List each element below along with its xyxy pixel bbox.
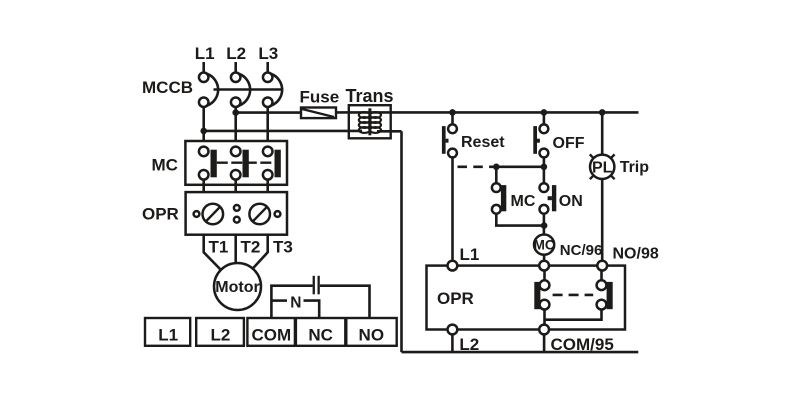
- MC label: [152, 155, 178, 174]
- pushbutton ON: [540, 183, 557, 214]
- dashed link reset to branch: [453, 166, 497, 169]
- OPR heater 2: [249, 204, 270, 225]
- Fuse label: [300, 87, 340, 106]
- svg-text:N: N: [290, 294, 301, 311]
- svg-text:L2: L2: [210, 326, 230, 345]
- wire L2 stub: [234, 62, 237, 72]
- relay contact NO: [597, 280, 613, 309]
- pushbutton Reset: [442, 124, 457, 157]
- svg-text:L2: L2: [226, 44, 246, 63]
- fuse F1: [301, 108, 336, 119]
- svg-text:OPR: OPR: [142, 204, 179, 223]
- contactor MC pole 2 contact: [231, 147, 249, 180]
- breaker MCCB pole 2: [231, 73, 250, 107]
- contactor MC pole 3 contact: [263, 147, 281, 180]
- svg-text:NO/98: NO/98: [613, 246, 659, 263]
- terminal NC96 of OPR: [539, 261, 549, 271]
- L1 node label: [460, 245, 480, 264]
- junction L1 trans tap: [200, 128, 207, 135]
- relay contact NC: [534, 280, 549, 309]
- node L2 label: [226, 44, 246, 63]
- terminal NO label: [359, 326, 385, 345]
- svg-text:Reset: Reset: [461, 134, 505, 151]
- svg-text:OFF: OFF: [553, 135, 585, 152]
- svg-text:MCCB: MCCB: [142, 78, 193, 97]
- svg-text:MC: MC: [511, 193, 536, 210]
- Trip label: [620, 159, 650, 176]
- OPR label: [142, 204, 179, 223]
- MCCB linkage bar: [214, 88, 284, 91]
- wire branch to off column: [496, 166, 544, 169]
- svg-text:T3: T3: [273, 238, 293, 257]
- NC/96 label: [560, 242, 603, 259]
- terminal COM95 of OPR: [539, 325, 549, 335]
- svg-text:PL: PL: [592, 160, 613, 177]
- wire trans to right rail: [377, 130, 402, 133]
- OPR center dots: [234, 205, 240, 223]
- svg-text:L1: L1: [195, 44, 215, 63]
- contactor MC box: [185, 141, 287, 185]
- wire COM95 terminal to rail: [543, 334, 546, 352]
- wire ON down: [543, 214, 546, 235]
- wire NC96 to contact: [543, 271, 546, 281]
- wire contact NC to COM95: [543, 310, 546, 325]
- wire MC to OPR pole1: [202, 180, 205, 193]
- T3 label: [273, 238, 293, 257]
- contactor MC pole 1 contact: [199, 147, 217, 180]
- wire pole2 to MC: [234, 107, 237, 147]
- wire coil to NC96: [543, 255, 546, 261]
- terminal block TB1: [145, 318, 397, 346]
- transformer T1 box: [349, 105, 391, 138]
- svg-text:MC: MC: [534, 238, 555, 253]
- wire L3 stub: [266, 62, 269, 72]
- svg-text:Motor: Motor: [215, 279, 259, 296]
- node N label: [290, 294, 301, 311]
- MCCB label: [142, 78, 193, 97]
- wire COM riser: [271, 286, 312, 318]
- wire OPR T1 down: [204, 235, 221, 270]
- OPR terminal left: [194, 211, 200, 217]
- svg-text:T2: T2: [241, 238, 261, 257]
- Reset label: [461, 134, 505, 151]
- T2 label: [241, 238, 261, 257]
- terminal L2 label: [210, 326, 230, 345]
- L2 node label: [459, 335, 479, 354]
- wire pole3 to MC: [266, 107, 269, 147]
- terminal L2 of OPR: [448, 325, 458, 335]
- wire MC contact elbow: [496, 214, 544, 226]
- ON label: [559, 193, 583, 210]
- wire N branch right: [304, 301, 320, 318]
- terminal NO98 of OPR: [597, 261, 607, 271]
- node L3 label: [258, 44, 278, 63]
- wire NO98 to contact: [600, 271, 603, 281]
- wire rail to off: [543, 112, 546, 124]
- terminal L1 label: [158, 326, 178, 345]
- motor M: [214, 263, 261, 310]
- COM/95 label: [551, 335, 614, 354]
- svg-text:T1: T1: [209, 238, 229, 257]
- wire OPR T3 down: [252, 235, 268, 270]
- svg-text:Fuse: Fuse: [300, 87, 340, 106]
- wire L1 to trans: [204, 130, 362, 133]
- relay link dashes: [553, 294, 594, 297]
- junction top rail pl: [599, 109, 606, 116]
- wire rail to reset: [451, 112, 454, 124]
- svg-text:Trip: Trip: [620, 159, 650, 176]
- wire MC to OPR pole2: [234, 180, 237, 193]
- capacitor C1: [313, 276, 320, 295]
- terminal NC label: [308, 326, 333, 345]
- T1 label: [209, 238, 229, 257]
- wire rail to PL: [601, 112, 604, 154]
- relay OPR box: [427, 266, 626, 330]
- terminal L1 of OPR: [448, 261, 458, 271]
- wire N branch left: [271, 299, 287, 302]
- NO/98 label: [613, 246, 659, 263]
- pilot lamp PL: [590, 154, 615, 179]
- junction coil node: [541, 222, 548, 229]
- wire reset to L1 terminal: [451, 157, 454, 261]
- wire L1 stub: [202, 62, 205, 72]
- wire PL to NO98: [601, 179, 604, 261]
- MC mechanical link dashes: [217, 161, 275, 163]
- junction top rail reset: [449, 109, 456, 116]
- svg-text:L1: L1: [158, 326, 178, 345]
- OPR heater 1: [203, 204, 224, 225]
- wire top rail: [336, 111, 639, 114]
- svg-text:OPR: OPR: [437, 289, 474, 308]
- svg-text:MC: MC: [152, 155, 178, 174]
- OPR terminal right: [275, 211, 281, 217]
- overload relay OPR box: [186, 192, 287, 235]
- breaker MCCB pole 1: [199, 73, 218, 107]
- coil MC: [534, 235, 555, 255]
- wire capacitor to NO riser: [320, 286, 370, 318]
- OFF label: [553, 135, 585, 152]
- wire branch down to MC contact: [495, 167, 498, 184]
- svg-text:L1: L1: [460, 245, 480, 264]
- svg-text:NO: NO: [359, 326, 385, 345]
- junction off column node: [541, 164, 548, 171]
- wire pole1 to MC: [202, 107, 205, 147]
- aux contact MC: [492, 183, 506, 214]
- transformer T1 windings: [359, 108, 381, 135]
- svg-text:COM: COM: [251, 326, 291, 345]
- junction top rail off: [541, 109, 548, 116]
- wire L2 to fuse: [236, 111, 301, 114]
- pushbutton OFF: [533, 124, 548, 157]
- svg-text:Trans: Trans: [346, 86, 394, 106]
- wire MC to OPR pole3: [266, 180, 269, 193]
- svg-text:ON: ON: [559, 193, 583, 210]
- wire off down to ON: [543, 157, 546, 183]
- terminal COM label: [251, 326, 291, 345]
- node L1 label: [195, 44, 215, 63]
- svg-text:NC: NC: [308, 326, 333, 345]
- OPR right label: [437, 289, 474, 308]
- wire L2 terminal to rail: [451, 334, 454, 352]
- wire OPR T2 down: [234, 235, 237, 264]
- breaker MCCB pole 3: [263, 73, 282, 107]
- wire contact NO elbow: [545, 310, 602, 320]
- svg-text:NC/96: NC/96: [560, 242, 603, 259]
- Trans label: [346, 86, 394, 106]
- svg-text:L3: L3: [258, 44, 278, 63]
- wire bottom rail: [402, 351, 639, 354]
- wire left rail of control circuit: [400, 131, 403, 352]
- MC aux label: [511, 193, 536, 210]
- junction L2 fuse tap: [232, 109, 239, 116]
- junction branch top: [493, 164, 500, 171]
